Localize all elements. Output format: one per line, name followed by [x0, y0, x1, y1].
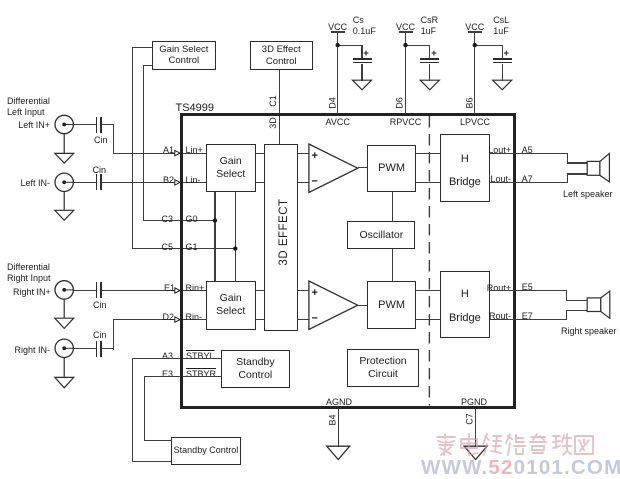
pin name STBYL with overline [186, 351, 215, 361]
pin label D6 [395, 96, 405, 109]
box Oscillator [347, 221, 415, 249]
capacitor Cin 4 plates [96, 341, 98, 357]
capacitor CsR label [421, 15, 439, 37]
node VCC3 junction [473, 43, 477, 47]
pin label D4 [327, 96, 337, 109]
connector jack Right IN+ [55, 281, 73, 299]
wire Cin3 to pin E1 [102, 290, 207, 291]
wire PWM1 to H Bridge left top [416, 153, 440, 154]
pin label E7 [522, 311, 533, 321]
watermark www.520101.com [421, 463, 620, 473]
svg-text:−: − [312, 313, 318, 325]
pin label E5 [522, 282, 533, 292]
wire PWM1 to Oscillator [392, 192, 393, 221]
pin label C5 [153, 242, 173, 252]
wire 3D EFFECT to op-amp minus right [298, 319, 309, 320]
box H Bridge left channel [440, 134, 490, 202]
pin name Rin- [186, 312, 203, 322]
label Differential Left Input [7, 96, 50, 118]
wire Cin4 to pin D2 [102, 348, 114, 349]
box 3D EFFECT [264, 144, 298, 332]
capacitor Cin label 3 [93, 300, 107, 310]
box PWM left channel U-PWM1 [367, 145, 415, 193]
wire 3D Effect Control to 3D EFFECT block [279, 70, 280, 144]
wire 3D EFFECT to op-amp plus right [298, 290, 309, 291]
pin label C7 [465, 412, 475, 425]
power VCC bar 3 [468, 31, 482, 32]
wire STBYL into standby control [183, 358, 221, 359]
wire H Bridge Rout+ to right speaker [490, 290, 568, 291]
label Right IN- [13, 345, 50, 355]
label TS4999 [176, 103, 215, 113]
wire VCC2 to RPVCC pin D6 [405, 32, 406, 114]
pin label B2 [154, 175, 174, 185]
wire VCC3 to LPVCC pin B6 [474, 32, 475, 114]
pin name STBYR with overline [186, 369, 216, 379]
ground pin C7 [464, 446, 487, 459]
ground under Right IN- [55, 358, 74, 388]
node VCC1 junction [336, 43, 340, 47]
label 3D EFFECT rotated [279, 187, 289, 277]
wire 3D EFFECT to op-amp minus left [298, 182, 309, 183]
op-amp right channel [309, 281, 358, 329]
wire H Bridge Lout- to left speaker [490, 182, 569, 183]
net PGND [459, 397, 489, 407]
pin label B4 [328, 413, 338, 426]
net RPVCC [389, 117, 423, 127]
pin label C1 [268, 95, 278, 107]
ground under Left IN+ [55, 134, 74, 163]
wire Gain Select to 3D EFFECT Lin+ [256, 153, 265, 154]
pin name Rout+ [481, 283, 511, 293]
capacitor Cin 3 plates [96, 282, 98, 298]
pin name Rout- [481, 311, 511, 321]
wire Cin1 to pin A1 [102, 124, 114, 125]
pin marker D2 [175, 317, 180, 322]
wire Cin2 to pin B2 [102, 182, 207, 183]
wire CsR to ground [429, 64, 430, 81]
wire pin E3 loop to external standby control [144, 376, 181, 377]
power VCC label 2 [391, 22, 421, 32]
ground under Cs [353, 80, 372, 90]
ground under CsR [420, 80, 439, 90]
capacitor Cin label 1 [94, 135, 108, 145]
capacitor CsL plates [493, 58, 512, 60]
pin label C3 [153, 214, 173, 224]
ground under Left IN- [55, 192, 74, 221]
ground under CsL [493, 80, 512, 90]
box Standby Control external [171, 437, 240, 466]
wire Right IN- jack to Cin4 [74, 348, 96, 349]
box PWM right channel U-PWM2 [367, 281, 415, 329]
wire VCC1 to AVCC pin D4 [337, 32, 338, 114]
wire G1 vertical between gain selects [235, 192, 236, 281]
pin name Rin+ [186, 283, 205, 293]
pin name Lin+ [186, 145, 203, 155]
box Standby Control internal [221, 350, 290, 388]
left speaker symbol [587, 153, 609, 182]
box Gain Select right channel [206, 281, 256, 330]
wire STBYR into standby control [183, 376, 221, 377]
wire H Bridge Rout- to right speaker [490, 319, 568, 320]
node G0 junction [213, 218, 217, 222]
svg-text:−: − [312, 176, 318, 188]
pin marker A1 [175, 150, 180, 155]
node G1 junction [233, 246, 237, 250]
wire VCC3 node to CsL [475, 45, 503, 46]
watermark chinese characters [437, 434, 593, 455]
capacitor Cin 2 plates [96, 174, 98, 190]
wire Right IN+ jack to Cin3 [74, 290, 96, 291]
capacitor CsL plus sign [504, 49, 510, 59]
box 3D Effect Control [250, 41, 313, 70]
capacitor Cin label 4 [93, 330, 107, 340]
net LPVCC [458, 117, 492, 127]
capacitor CsR plus sign [431, 49, 437, 59]
wire pin A3 loop to external standby control [132, 358, 181, 359]
net AVCC [323, 117, 353, 127]
wire CsL to ground [502, 64, 503, 81]
wire Gain Select to 3D EFFECT Rin- [256, 319, 265, 320]
pin marker E1 [175, 288, 180, 293]
wire op-amp right output to PWM2 [358, 305, 368, 306]
pin label A3 [153, 351, 173, 361]
node VCC2 junction [403, 43, 407, 47]
power VCC label 1 [323, 22, 353, 32]
capacitor Cin label 2 [93, 165, 107, 175]
right speaker symbol [587, 291, 610, 318]
wire PWM2 to H Bridge right top [416, 290, 440, 291]
pin label E3 [153, 369, 173, 379]
wire VCC2 node to CsR [406, 45, 431, 46]
op-amp left channel [309, 144, 358, 192]
ground pin B4 [327, 446, 350, 459]
connector jack Right IN- [55, 339, 73, 357]
power VCC label 3 [460, 22, 490, 32]
pin label E1 [155, 283, 175, 293]
capacitor Cs label [353, 15, 376, 37]
pin marker B2 [175, 180, 180, 185]
wire Cs to ground [361, 64, 362, 81]
chip TS4999 boundary [180, 113, 516, 409]
svg-text:+: + [312, 150, 318, 162]
wire Gain Select Control to G1 line [132, 47, 152, 48]
pin name G1 [186, 242, 198, 252]
svg-text:+: + [312, 287, 318, 299]
wire op-amp left output to PWM1 [358, 167, 368, 168]
wire PWM2 to H Bridge right bottom [416, 319, 440, 320]
capacitor CsR plates [420, 58, 439, 60]
label Left IN+ [18, 120, 50, 130]
box Protection Circuit [347, 349, 418, 387]
pin label A1 [154, 145, 174, 155]
power VCC bar 1 [331, 31, 345, 32]
pin label B6 [464, 96, 474, 109]
wire Left IN- jack to Cin2 [74, 182, 96, 183]
label Right speaker [561, 326, 617, 336]
wire Gain Select to 3D EFFECT Lin- [256, 182, 265, 183]
pin name Lin- [186, 175, 201, 185]
power VCC bar 2 [399, 31, 413, 32]
connector jack Left IN+ [55, 115, 73, 133]
net AGND [324, 397, 354, 407]
pin name G0 [186, 214, 198, 224]
label Left IN- [18, 178, 50, 188]
label 3D rotated [268, 117, 278, 129]
wire Left IN+ jack to Cin1 [74, 124, 96, 125]
wire pin C7 to ground [475, 408, 476, 447]
pin label A5 [522, 145, 533, 155]
box H Bridge right channel [440, 271, 490, 339]
wire G0 verticals between gain selects [214, 192, 215, 281]
box Gain Select Control [152, 41, 216, 70]
pin name Lout+ [481, 145, 511, 155]
dashed separator line [428, 116, 430, 406]
wire H Bridge Lout+ to left speaker [490, 153, 569, 154]
wire PWM1 to H Bridge left bottom [416, 182, 440, 183]
capacitor Cs plates [353, 58, 372, 60]
label Right IN+ [13, 287, 50, 297]
pin label A7 [522, 174, 533, 184]
pin name Lout- [481, 174, 511, 184]
wire Gain Select to 3D EFFECT Rin+ [256, 290, 265, 291]
box Gain Select left channel [206, 144, 256, 192]
connector jack Left IN- [55, 173, 73, 191]
pin label D2 [154, 312, 174, 322]
label Differential Right Input [7, 262, 51, 284]
wire VCC1 node to Cs [338, 45, 363, 46]
label Left speaker [563, 189, 613, 199]
ground under Right IN+ [55, 299, 74, 328]
capacitor CsL label [493, 15, 509, 37]
capacitor Cin 1 plates [96, 117, 98, 133]
wire 3D EFFECT to op-amp plus left [298, 153, 309, 154]
wire Gain Select Control to G0 line [143, 65, 152, 66]
wire pin B4 to ground [338, 408, 339, 447]
wire Oscillator to PWM2 [392, 249, 393, 281]
capacitor Cs plus sign [363, 49, 369, 59]
